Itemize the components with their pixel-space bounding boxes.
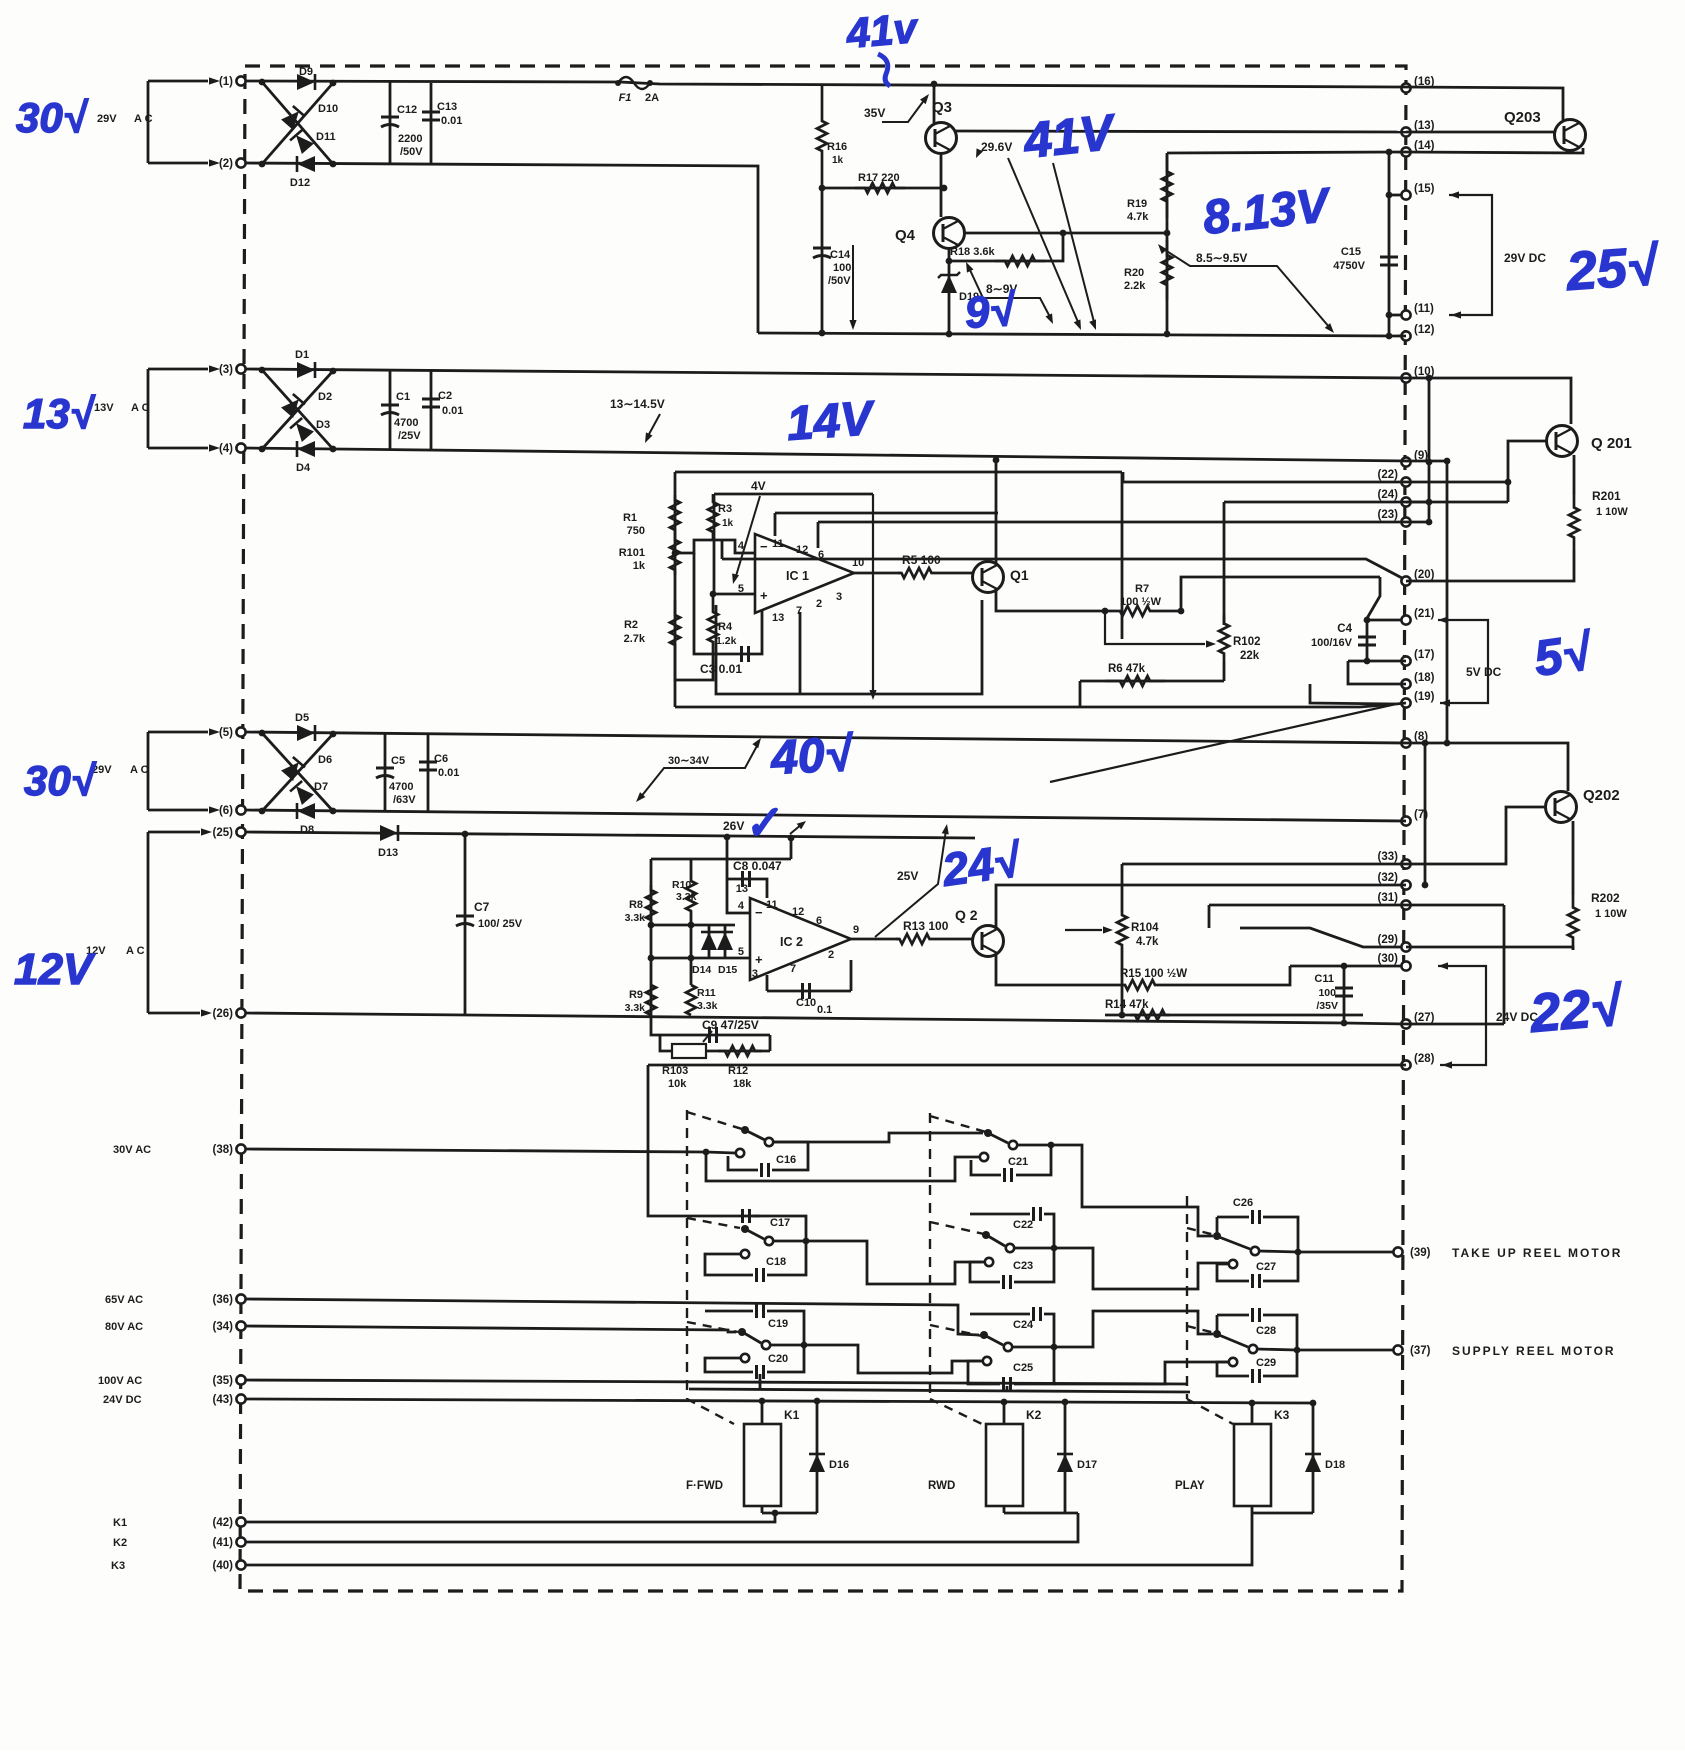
annotation arrow into R104 (1065, 929, 1102, 931)
svg-text:C16: C16 (776, 1154, 796, 1166)
wire 100V AC feeder 35 (245, 1380, 1187, 1384)
svg-text:D11: D11 (316, 131, 336, 143)
dashed linkage group K1 (686, 1110, 688, 1399)
svg-text:3.3k: 3.3k (625, 912, 646, 924)
svg-text:C11: C11 (1314, 973, 1334, 985)
wire terminal 8 to 32 bus (1424, 743, 1427, 885)
terminal (31) (1401, 900, 1410, 909)
svg-text:IC 1: IC 1 (786, 569, 809, 583)
wire terminal 17 cluster (1348, 660, 1406, 663)
annotation arrow at C14 (852, 245, 854, 322)
wire R10 R11 mid (690, 912, 693, 985)
svg-text:R16: R16 (827, 141, 847, 153)
wire Q1 emitter to R7 (996, 589, 1105, 611)
svg-text:26V: 26V (723, 819, 744, 833)
zener diode D19 (941, 275, 957, 293)
wire bottom rail to terminal 12 (758, 333, 1406, 336)
svg-text:24V DC: 24V DC (103, 1394, 142, 1406)
svg-text:C13: C13 (437, 101, 457, 113)
resistor R5 100 (898, 568, 935, 578)
terminal (39) (1393, 1247, 1402, 1256)
resistor R3 1k (708, 494, 718, 540)
svg-text:C5: C5 (391, 755, 405, 767)
svg-text:(14): (14) (1414, 140, 1435, 152)
svg-text:(20): (20) (1414, 569, 1435, 581)
svg-text:C20: C20 (768, 1353, 788, 1365)
capacitor C4 100/16V (1366, 620, 1369, 661)
junction dots bridge 3 (259, 730, 266, 737)
svg-text:+: + (755, 952, 763, 967)
wire upper contact S1 to group B (773, 1133, 983, 1142)
svg-text:+: + (760, 588, 768, 603)
resistor R1 750 (670, 495, 680, 535)
svg-text:9√: 9√ (963, 286, 1018, 338)
svg-text:K3: K3 (1274, 1408, 1290, 1422)
terminal (5) (236, 727, 245, 736)
svg-text:(33): (33) (1378, 851, 1399, 863)
svg-text:0.01: 0.01 (441, 115, 462, 127)
svg-text:C24: C24 (1013, 1319, 1034, 1331)
svg-text:C25: C25 (1013, 1362, 1033, 1374)
29V DC bracket (1449, 191, 1459, 198)
svg-text:(11): (11) (1414, 303, 1434, 315)
svg-text:(15): (15) (1414, 183, 1435, 195)
wire output to terminal 39 (1298, 1251, 1393, 1254)
diode D3 (290, 418, 314, 442)
svg-text:100/16V: 100/16V (1311, 637, 1353, 649)
svg-text:C26: C26 (1233, 1197, 1253, 1209)
svg-text:Q203: Q203 (1504, 109, 1541, 126)
relay contact S6 with capacitor C24 (970, 1313, 1030, 1316)
svg-text:D2: D2 (318, 391, 332, 403)
annotation 30-34V double arrow (633, 792, 645, 804)
svg-text:SUPPLY REEL MOTOR: SUPPLY REEL MOTOR (1452, 1344, 1616, 1358)
svg-text:/25V: /25V (398, 430, 421, 442)
svg-text:2.2k: 2.2k (1124, 280, 1146, 292)
resistor R7 100 half-watt (1105, 606, 1165, 616)
wire terminal 28 long line (648, 1064, 1406, 1067)
relay contact S4 with capacitor C21 (984, 1129, 992, 1137)
svg-text:R104: R104 (1131, 922, 1159, 934)
svg-text:R102: R102 (1233, 636, 1261, 648)
wire C15 bus (1388, 152, 1391, 336)
wire K2 bottom bus to terminal 41 (1004, 1512, 1078, 1515)
svg-text:5: 5 (738, 583, 744, 595)
wire 28-line drop to switch group A (648, 1065, 705, 1216)
op-amp IC1 (755, 534, 854, 613)
svg-text:4.7k: 4.7k (1127, 211, 1149, 223)
svg-text:11: 11 (766, 899, 778, 911)
svg-text:D18: D18 (1325, 1459, 1345, 1471)
wire non-inverting input of IC1 (713, 593, 755, 596)
relay coil K1 (761, 1403, 764, 1424)
svg-text:K2: K2 (113, 1537, 127, 1549)
wire 30V AC feeder 38 (245, 1149, 706, 1152)
svg-text:C12: C12 (397, 104, 417, 116)
diode D1 (297, 362, 315, 378)
diode D10 (281, 106, 305, 130)
svg-text:C21: C21 (1008, 1156, 1028, 1168)
wire R2 R4 bottom join (675, 660, 713, 680)
svg-text:R101: R101 (619, 547, 645, 559)
wire bottom rail of bridge 1 (245, 163, 758, 333)
terminal (11) (1401, 310, 1410, 319)
wire Q203 emitter to terminal 14 (1406, 148, 1583, 153)
potentiometer R102 22k (1223, 502, 1226, 625)
terminal (43) (236, 1394, 245, 1403)
capacitor C6 0.01 (427, 733, 430, 811)
resistor R17 220 (822, 187, 944, 190)
svg-text:(4): (4) (219, 443, 233, 455)
svg-text:C14: C14 (830, 249, 851, 261)
svg-text:(37): (37) (1410, 1345, 1431, 1357)
svg-text:C23: C23 (1013, 1260, 1033, 1272)
svg-text:(24): (24) (1378, 489, 1399, 501)
svg-text:22k: 22k (1240, 650, 1260, 662)
IC1 inner bottom box (716, 600, 982, 694)
wire IC2 input mesh top (651, 924, 735, 927)
svg-text:12: 12 (792, 906, 804, 918)
svg-text:6: 6 (816, 915, 822, 927)
transistor Q2 (973, 926, 1004, 957)
wire bottom rail bridge 3 to terminal 7 (245, 810, 1406, 821)
wire Q202 emitter to R202 (1572, 821, 1575, 895)
svg-text:2200: 2200 (398, 133, 422, 145)
svg-text:(42): (42) (213, 1517, 234, 1529)
svg-text:11: 11 (772, 538, 784, 550)
svg-text:F1: F1 (619, 92, 632, 104)
svg-text:3.3k: 3.3k (625, 1002, 646, 1014)
svg-text:C29: C29 (1256, 1357, 1276, 1369)
wire Q201 base from terminal 22 (1406, 481, 1508, 484)
wire terminal 24 line (1224, 501, 1406, 504)
relay coil K3 (1251, 1403, 1254, 1424)
resistor R104 4.7k (1117, 912, 1127, 948)
wire Q4 emitter (965, 232, 1167, 235)
diode D2 (281, 394, 305, 418)
svg-text:29.6V: 29.6V (981, 140, 1012, 154)
terminal (3) (236, 364, 245, 373)
wire Q3 to terminal 13 (956, 131, 1406, 132)
wire Q1 collector to rail (995, 460, 998, 566)
terminal (19) (1401, 698, 1410, 707)
terminal (13) (1401, 127, 1410, 136)
resistor R8 3.3k (646, 885, 656, 925)
svg-text:A C: A C (126, 945, 145, 957)
relay contact S5b with capacitor C23 (985, 1258, 993, 1266)
svg-text:C6: C6 (434, 753, 448, 765)
svg-text:R14 47k: R14 47k (1105, 999, 1149, 1011)
svg-text:R15 100 ½W: R15 100 ½W (1120, 968, 1187, 980)
svg-text:C18: C18 (766, 1256, 786, 1268)
terminal (2) (236, 158, 245, 167)
relay contact S5 with capacitor C22 (970, 1213, 1030, 1216)
wire Q2 emitter to R15 line (996, 953, 1110, 985)
resistor R20 2.2k (1166, 233, 1169, 334)
svg-text:0.01: 0.01 (442, 405, 463, 417)
resistor R18 3.6k (949, 233, 1063, 261)
vertical annotation arrow to ground (872, 494, 874, 692)
svg-text:R13 100: R13 100 (903, 919, 949, 933)
wire Q202 base from terminal 33 (1406, 807, 1546, 864)
relay coil K2 (1003, 1403, 1006, 1424)
wire pin6 to line 23 (817, 522, 820, 548)
svg-text:41v: 41v (844, 4, 922, 57)
svg-text:C7: C7 (474, 900, 490, 914)
svg-text:3.3k: 3.3k (676, 891, 697, 903)
wire bus 9 to 8 (1446, 461, 1449, 743)
svg-text:(31): (31) (1378, 892, 1399, 904)
svg-text:/35V: /35V (1316, 1000, 1338, 1012)
resistor R10 3.3k (690, 859, 693, 880)
svg-text:R20: R20 (1124, 267, 1144, 279)
svg-text:9: 9 (853, 924, 859, 936)
svg-text:(34): (34) (213, 1321, 234, 1333)
svg-text:30√: 30√ (24, 757, 97, 804)
wire 25 line with D13 (245, 832, 975, 838)
terminal (37) (1393, 1345, 1402, 1354)
wire Q2 collector to terminal 32 (996, 885, 1406, 930)
AC source 13V input to (3)(4) (148, 368, 208, 371)
svg-text:(23): (23) (1378, 509, 1399, 521)
IC1 inner box (714, 493, 873, 496)
svg-text:2: 2 (828, 949, 834, 961)
svg-text:C3 0.01: C3 0.01 (700, 662, 742, 676)
terminal (17) (1401, 656, 1410, 665)
capacitor C7 100/25V (464, 834, 467, 1015)
svg-text:A C: A C (134, 113, 153, 125)
wire C19 block output (804, 1345, 982, 1373)
terminal (38) (236, 1144, 245, 1153)
svg-text:4700: 4700 (389, 781, 413, 793)
wire terminal 33 to R104 (1122, 863, 1406, 866)
svg-text:(40): (40) (213, 1560, 234, 1572)
svg-text:C8 0.047: C8 0.047 (733, 859, 782, 873)
terminal (24) (1401, 497, 1410, 506)
svg-text:29V DC: 29V DC (1504, 251, 1546, 265)
svg-text:K1: K1 (784, 1408, 800, 1422)
wire terminal 19 line (1310, 684, 1396, 704)
svg-text:3: 3 (752, 968, 758, 980)
svg-text:(43): (43) (213, 1394, 234, 1406)
diode D18 (1312, 1403, 1315, 1513)
svg-text:/50V: /50V (400, 146, 423, 158)
resistor R103 10k rectangle (660, 1035, 672, 1051)
5V DC bracket (1438, 616, 1448, 623)
transistor Q3 (933, 84, 936, 123)
svg-text:30∼34V: 30∼34V (668, 755, 710, 767)
resistor R201 1 10W (1569, 495, 1579, 550)
svg-text:25V: 25V (897, 869, 918, 883)
wire switch-group ground bus (689, 1389, 1190, 1392)
svg-text:1k: 1k (633, 560, 646, 572)
svg-text:Q4: Q4 (895, 227, 916, 244)
svg-text:100: 100 (1318, 987, 1336, 999)
terminal (15) (1401, 190, 1410, 199)
terminal (29) (1401, 942, 1410, 951)
terminal (35) (236, 1375, 245, 1384)
relay contact S8 with capacitor C28 (1217, 1314, 1249, 1317)
24V DC bracket (1438, 962, 1448, 969)
terminal (41) (236, 1537, 245, 1546)
annotation arrow 41V long 2 (1053, 163, 1094, 322)
terminal (7) (1401, 816, 1410, 825)
terminal (22) (1401, 477, 1410, 486)
resistor R19 4.7k (1166, 153, 1169, 233)
resistor R202 1 10W (1568, 895, 1578, 950)
relay contact S7 with capacitor C26 (1217, 1216, 1249, 1219)
wire terminal 10 to Q201 (1406, 378, 1571, 424)
svg-text:D3: D3 (316, 419, 330, 431)
svg-text:C19: C19 (768, 1318, 788, 1330)
AC source 29V input to (5)(6) (148, 731, 208, 734)
svg-text:D16: D16 (829, 1459, 849, 1471)
svg-text:(27): (27) (1414, 1012, 1435, 1024)
terminal (1) (236, 76, 245, 85)
terminal (10) (1401, 373, 1410, 382)
diode D5 (297, 725, 315, 741)
IC2 network box (651, 858, 791, 861)
svg-text:1k: 1k (722, 518, 734, 529)
terminal (20) (1401, 576, 1410, 585)
svg-text:K2: K2 (1026, 1408, 1042, 1422)
resistor R16 1k (817, 84, 827, 188)
svg-text:R12: R12 (728, 1065, 748, 1077)
svg-text:7: 7 (790, 963, 796, 975)
wire terminal 19 diagonal mark (1050, 704, 1396, 782)
svg-text:(30): (30) (1378, 953, 1399, 965)
wire 38 lower bus (706, 1152, 982, 1181)
svg-text:D1: D1 (295, 349, 309, 361)
wire Q201 emitter to R201 (1573, 455, 1576, 495)
terminal (6) (236, 805, 245, 814)
wire top rail 13V section (245, 369, 1406, 378)
wire terminal 20 kink (1366, 577, 1401, 620)
svg-text:C15: C15 (1341, 246, 1361, 258)
svg-text:(41): (41) (213, 1537, 234, 1549)
svg-text:✓: ✓ (741, 797, 783, 849)
diode D16 (816, 1403, 819, 1513)
svg-text:100: 100 (833, 262, 851, 274)
terminal (34) (236, 1321, 245, 1330)
svg-text:2: 2 (816, 598, 822, 610)
wire stub to terminal 11 (1389, 314, 1401, 317)
relay contact S3b with capacitor C20 (741, 1354, 749, 1362)
relay contact S2 with capacitor C17 (704, 1215, 707, 1218)
svg-text:C17: C17 (770, 1217, 790, 1229)
terminal (4) (236, 443, 245, 452)
svg-text:PLAY: PLAY (1175, 1480, 1205, 1492)
svg-text:80V AC: 80V AC (105, 1321, 143, 1333)
resistor R13 100 (896, 934, 933, 944)
wire terminal 24 stub (1406, 501, 1429, 504)
svg-text:4: 4 (738, 540, 745, 552)
AC source 12V input to (25)(26) (148, 831, 200, 834)
wire 26V feed to IC2 inverting input (727, 838, 750, 913)
svg-text:D17: D17 (1077, 1459, 1097, 1471)
wire 65V AC feeder 36 (245, 1299, 979, 1335)
wire top rail 29V (245, 81, 1406, 87)
transistor Q1 (973, 562, 1004, 593)
svg-text:14V: 14V (785, 392, 878, 451)
terminal (23) (1401, 517, 1410, 526)
svg-text:/50V: /50V (828, 275, 851, 287)
svg-text:4.7k: 4.7k (1136, 936, 1159, 948)
wire R19 top to terminal 14 (1167, 152, 1406, 153)
svg-text:18k: 18k (733, 1078, 752, 1090)
wire output to terminal 37 (1297, 1349, 1393, 1352)
diode D7 (290, 781, 314, 805)
svg-text:C9 47/25V: C9 47/25V (702, 1018, 759, 1032)
diode D4 (297, 441, 315, 457)
terminal (40) (236, 1560, 245, 1569)
wire IC1 output (854, 572, 900, 575)
wire C25 to C29 link (1054, 1362, 1229, 1384)
svg-text:D13: D13 (378, 847, 398, 859)
svg-text:C27: C27 (1256, 1261, 1276, 1273)
wire terminal 31 to 27 bus (1503, 905, 1506, 1024)
wire top rail 29V section 3 (245, 732, 1406, 743)
capacitor C10 0.1 (767, 990, 851, 993)
bridge2 diagonal wire 1 (262, 370, 333, 449)
diode D17 (1064, 1403, 1067, 1513)
svg-text:C2: C2 (438, 390, 452, 402)
svg-text:13: 13 (772, 612, 784, 624)
svg-text:TAKE UP REEL MOTOR: TAKE UP REEL MOTOR (1452, 1246, 1622, 1260)
svg-text:(38): (38) (213, 1144, 234, 1156)
capacitor C9 47/25V (651, 1015, 770, 1035)
svg-text:5V DC: 5V DC (1466, 665, 1502, 679)
wire Q203 base from terminal 13 (1406, 131, 1555, 134)
svg-text:(3): (3) (219, 364, 233, 376)
svg-text:R6 47k: R6 47k (1108, 663, 1146, 675)
relay contact S7b with capacitor C27 (1229, 1260, 1237, 1268)
wire C17 block output (806, 1241, 982, 1284)
svg-text:4V: 4V (751, 479, 766, 493)
svg-text:D15: D15 (718, 964, 737, 976)
diode D8 (297, 803, 315, 819)
svg-text:R9: R9 (629, 989, 643, 1001)
junction dots bridge 2 (259, 367, 266, 374)
svg-text:R201: R201 (1592, 489, 1621, 503)
svg-text:2.7k: 2.7k (624, 633, 646, 645)
IC1 feedback network outer box (675, 471, 1122, 474)
diode D11 (290, 130, 314, 154)
svg-text:R17 220: R17 220 (858, 172, 900, 184)
svg-text:C28: C28 (1256, 1325, 1276, 1337)
resistor R2 2.7k (670, 600, 680, 660)
svg-text:A C: A C (131, 402, 150, 414)
svg-text:D6: D6 (318, 754, 332, 766)
svg-text:RWD: RWD (928, 1480, 955, 1492)
wire R7 junction to R102 arrow (1105, 611, 1205, 644)
terminal (42) (236, 1517, 245, 1526)
svg-text:F·FWD: F·FWD (686, 1480, 723, 1492)
wire inverting input of IC1 (675, 540, 755, 553)
wire 80V AC feeder 34 (245, 1326, 736, 1332)
wire ground line 26 to terminal 27 (245, 1013, 1406, 1024)
svg-text:4: 4 (738, 900, 745, 912)
wire terminal 23 stub (1406, 521, 1429, 524)
resistor R14 47k (1105, 1014, 1363, 1017)
dashed linkage group K3 (1186, 1196, 1188, 1399)
svg-text:Q1: Q1 (1010, 567, 1029, 583)
svg-text:−: − (760, 539, 768, 554)
svg-text:(21): (21) (1414, 608, 1435, 620)
svg-text:C1: C1 (396, 391, 410, 403)
transistor Q201 (1547, 426, 1578, 457)
svg-text:13√: 13√ (23, 390, 96, 437)
